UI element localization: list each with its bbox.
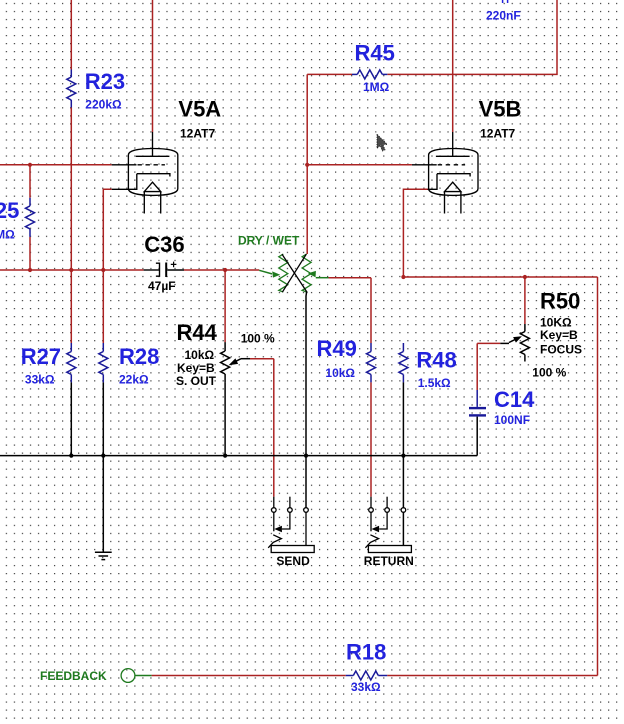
junction: mid bus x=71.3 [69, 268, 73, 272]
mouse cursor [376, 134, 387, 151]
wiper: DRY side (green arrow from mid bus) [259, 270, 280, 277]
junction: R45/V5B-grid node [305, 163, 309, 167]
svg-text:R23: R23 [85, 69, 125, 94]
svg-text:C36: C36 [144, 232, 184, 257]
svg-text:R28: R28 [119, 344, 159, 369]
wire: R28 top lead [102, 270, 104, 343]
junction: R25 tap on grid wire [28, 163, 32, 167]
svg-text:33kΩ: 33kΩ [351, 680, 381, 694]
wire: R28 bottom to ground bus [102, 382, 104, 455]
svg-text:100NF: 100NF [494, 413, 530, 427]
resistor R25 [26, 198, 35, 237]
svg-text:Key=B: Key=B [540, 328, 578, 342]
svg-text:1MΩ: 1MΩ [363, 80, 390, 94]
resistor R27 [67, 343, 76, 382]
junction: ground bus x=225.1 [223, 454, 227, 458]
svg-text:100 %: 100 % [241, 331, 275, 345]
resistor R49 [367, 343, 376, 382]
wire: mid bus left section [0, 269, 144, 271]
junction: ground bus x=103.3 [101, 454, 105, 458]
junction: mid bus x=103.3 [101, 268, 105, 272]
wire: DRY/WET bottom to ground bus and SEND sleeve [305, 292, 308, 508]
svg-text:R48: R48 [416, 348, 456, 373]
junction: ground bus x=71.3 [69, 454, 73, 458]
svg-text:R45: R45 [355, 40, 395, 65]
potentiometer DRY/WET right element [302, 254, 311, 292]
svg-text:R49: R49 [317, 336, 357, 361]
svg-text:220nF: 220nF [486, 8, 521, 22]
wire: WET wiper to R49 top [329, 278, 372, 343]
svg-text:100 %: 100 % [532, 365, 566, 379]
junction: ground bus x=403.4 [401, 454, 405, 458]
svg-text:1MΩ: 1MΩ [0, 227, 15, 241]
FEEDBACK terminal circle [121, 669, 135, 683]
wire: wiper black segment [500, 342, 509, 344]
svg-text:R25: R25 [0, 198, 19, 223]
wire: R50 top lead [524, 277, 526, 324]
svg-text:R18: R18 [346, 640, 386, 665]
wire: R25 bottom to mid bus [29, 237, 31, 270]
wire: R44 wiper to SEND tip [250, 359, 274, 497]
wire: R49 bottom to RETURN tip [370, 382, 372, 496]
wire: DRY/WET cross diagonal 2 [282, 254, 306, 292]
svg-text:C14: C14 [494, 387, 535, 412]
junction: cathode node x=403.4 [401, 275, 405, 279]
wire: V5A plate supply drop (x=152.5) [152, 0, 154, 132]
wire: left grid wire at y=164.8 [0, 164, 112, 166]
wire: V5B cathode down to node [403, 189, 427, 277]
wire: R44 bottom to ground bus [224, 382, 226, 455]
wire: R23 bottom down to mid bus [70, 108, 72, 271]
svg-text:1.5kΩ: 1.5kΩ [418, 376, 451, 390]
wire: R50 wiper to C14 [477, 343, 500, 390]
svg-text:RETURN: RETURN [364, 554, 414, 568]
wire: C36 right lead to R44 node [184, 269, 259, 271]
capacitor C14 [469, 390, 486, 456]
wire: feedback run to R18 [152, 675, 346, 677]
svg-text:R44: R44 [177, 320, 218, 345]
svg-text:FOCUS: FOCUS [540, 342, 582, 356]
resistor R23 [67, 70, 76, 108]
svg-text:12AT7: 12AT7 [180, 127, 215, 141]
svg-text:33kΩ: 33kΩ [25, 373, 55, 387]
svg-text:R27: R27 [21, 344, 61, 369]
resistor R48 [399, 343, 408, 382]
wire: FEEDBACK green lead [135, 675, 152, 677]
junction: R50 tap x=524.9 [523, 275, 527, 279]
capacitor C36 (polarized) [144, 262, 184, 277]
svg-text:12AT7: 12AT7 [480, 127, 515, 141]
junction: ground bus x=306 [304, 454, 308, 458]
jack RETURN [365, 497, 411, 553]
wire: DRY/WET cross diagonal 1 [282, 254, 307, 292]
wire: R27 top lead [70, 270, 72, 343]
svg-text:47µF: 47µF [148, 279, 176, 293]
svg-text:DRY / WET: DRY / WET [238, 233, 300, 247]
wire: V5B plate supply drop (x=452.7) [452, 0, 454, 132]
svg-text:22kΩ: 22kΩ [119, 373, 149, 387]
wire: ground bus [0, 455, 477, 457]
ground [95, 456, 112, 560]
resistor R18 [346, 671, 388, 680]
svg-text:S. OUT: S. OUT [176, 374, 217, 388]
junction: mid bus x=30 [28, 268, 32, 272]
wire: R45 left lead to corner and down to DRY/WET pot [307, 74, 352, 254]
wire: cathode bus to right edge and down [403, 277, 597, 676]
svg-text:FEEDBACK: FEEDBACK [40, 669, 107, 683]
wire: R25 top lead [29, 165, 31, 198]
wire: R44 top lead from mid bus [224, 270, 226, 342]
wire: V5B grid wire from R45 node [307, 164, 412, 166]
junction: mid bus x=225.1 (R44 tap) [223, 268, 227, 272]
jack SEND [268, 497, 314, 553]
wiper: WET side (green arrow to R49 wire) [308, 271, 329, 278]
svg-text:10kΩ: 10kΩ [325, 366, 355, 380]
svg-text:SEND: SEND [276, 554, 310, 568]
wire: R48 bottom through ground bus to RETURN sleeve [402, 382, 404, 545]
capacitor fragment top right (clipped refdes above 220nF) [503, 0, 508, 3]
svg-text:10kΩ: 10kΩ [185, 348, 215, 362]
svg-text:220kΩ: 220kΩ [85, 97, 122, 111]
wire: top-right feed down and left to R45 (x=557) [387, 0, 557, 74]
wire: R18 right to corner (from cathode bus) [387, 675, 597, 677]
svg-text:V5B: V5B [479, 96, 522, 121]
svg-text:R50: R50 [540, 289, 580, 314]
vacuum tube V5B (12AT7 triode) [412, 132, 478, 214]
resistor R45 [352, 70, 387, 79]
svg-text:V5A: V5A [178, 96, 221, 121]
wire: V5A cathode to mid bus [103, 189, 111, 270]
wire: R27 bottom to ground bus [70, 382, 72, 455]
vacuum tube V5A (12AT7 triode) [112, 132, 178, 214]
potentiometer R44 [221, 342, 241, 382]
potentiometer DRY/WET left element [279, 254, 288, 292]
svg-text:Key=B: Key=B [177, 361, 215, 375]
potentiometer R50 [509, 324, 529, 362]
wire: R44 wiper black segment [241, 358, 250, 360]
wire: left supply drop to R23 (x=71.3, top) [70, 0, 72, 70]
resistor R28 [99, 343, 108, 382]
